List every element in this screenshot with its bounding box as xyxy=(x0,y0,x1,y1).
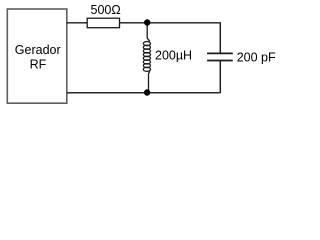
svg-text:200 pF: 200 pF xyxy=(237,50,276,64)
svg-text:500Ω: 500Ω xyxy=(91,3,121,17)
svg-text:RF: RF xyxy=(30,57,47,71)
svg-text:200µH: 200µH xyxy=(155,49,192,63)
svg-text:Gerador: Gerador xyxy=(15,43,61,57)
